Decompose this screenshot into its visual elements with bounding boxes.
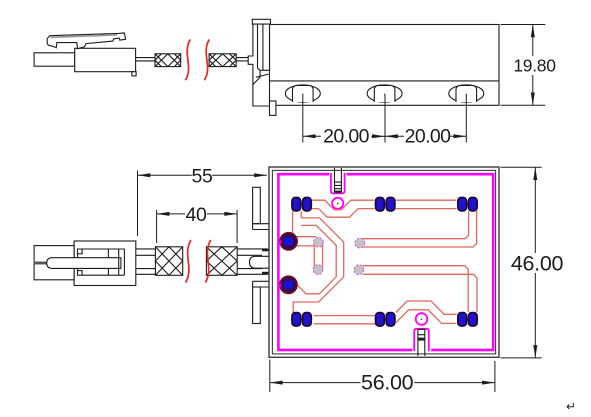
trace: pads A1 to A2 with dip around hole H1 bbox=[311, 200, 375, 217]
dimension 20.00 leader lines bbox=[303, 95, 467, 143]
magenta silkscreen border bbox=[278, 174, 493, 350]
wire W1 side view bbox=[136, 58, 253, 61]
dimension 55 bbox=[138, 166, 267, 237]
dimension 56.00 bbox=[270, 360, 495, 395]
mounting hole H2 (magenta) bbox=[416, 313, 428, 325]
svg-text:55: 55 bbox=[191, 166, 213, 188]
terminal T2 (solder joint) bbox=[278, 276, 297, 293]
PCB mounting bracket upper (plan) bbox=[253, 187, 269, 229]
LED lens L2 side view bbox=[367, 85, 402, 102]
trace: pads A2 to A3 bbox=[396, 200, 457, 208]
PCB outline inner bbox=[272, 170, 495, 354]
via V3 bbox=[355, 238, 365, 248]
LED pad pair B3 bbox=[457, 313, 478, 326]
dimension 20.00 (first) bbox=[303, 126, 385, 148]
terminal T1 (solder joint) bbox=[278, 233, 297, 250]
module housing side view bbox=[270, 25, 500, 106]
mounting hole H1 (magenta) bbox=[332, 198, 343, 209]
wire entry housing at board edge bbox=[250, 249, 277, 275]
wire shield hatch segment 2 (side) bbox=[209, 54, 236, 67]
svg-text:20.00: 20.00 bbox=[405, 126, 452, 148]
LED lens L3 side view bbox=[449, 85, 484, 102]
connector P1 plan view body bbox=[34, 241, 136, 286]
svg-text:20.00: 20.00 bbox=[323, 126, 370, 148]
wire shield hatch segment 1 (plan) bbox=[155, 247, 182, 275]
trace: via V1 to via V2 bbox=[314, 245, 322, 268]
trace: arc band around vias to pads B1 (outer edge) bbox=[293, 218, 344, 313]
svg-text:56.00: 56.00 bbox=[361, 371, 414, 395]
connector P1 latch lever bbox=[47, 33, 125, 49]
svg-text:↵: ↵ bbox=[566, 400, 576, 414]
PCB mounting bracket lower (plan) bbox=[253, 281, 269, 323]
LED pad pair B1 bbox=[291, 313, 312, 326]
trace: pads B2 to pads B3 over hole H2 bbox=[396, 301, 457, 323]
module left mount column (side) bbox=[248, 19, 276, 115]
via V2 bbox=[313, 265, 323, 275]
trace: pads A3 down to via V3 bbox=[363, 211, 477, 247]
wire W1 plan view (upper conductor) bbox=[136, 249, 268, 255]
connector P1 side view body bbox=[34, 48, 136, 76]
via V4 bbox=[354, 265, 364, 275]
connector P1 cavity detail lines bbox=[78, 249, 125, 275]
top notch slot cutout bbox=[329, 168, 346, 196]
LED pad pair A2 bbox=[375, 198, 396, 211]
trace: pad A1 down to terminal T1 bbox=[293, 211, 302, 233]
trace: arc band inner edge to terminal T2 bbox=[297, 225, 336, 293]
dimension 40 bbox=[157, 204, 238, 243]
trace: pads B1 to pads B2 bbox=[314, 316, 376, 324]
LED lens L1 side view bbox=[285, 85, 320, 102]
via V1 bbox=[314, 237, 324, 247]
PCB outline outer bbox=[269, 167, 499, 357]
svg-text:19.80: 19.80 bbox=[513, 56, 556, 76]
LED pad pair A1 bbox=[291, 198, 312, 211]
trace: terminal T1 to via V1 bbox=[295, 237, 316, 246]
dimension 19.80 bbox=[501, 25, 557, 106]
LED pad pair B2 bbox=[375, 313, 396, 326]
LED pad pair A3 bbox=[457, 198, 478, 211]
wire W2 plan view (lower conductor) bbox=[136, 269, 268, 275]
dimension 20.00 (second) bbox=[385, 126, 466, 148]
trace: via V4 to pads B3 bbox=[363, 266, 478, 312]
wire shield hatch segment 2 (plan) bbox=[206, 247, 237, 275]
connector P1 centre tongue bbox=[47, 258, 121, 269]
wire break symbol (red) side view bbox=[185, 40, 209, 81]
svg-text:46.00: 46.00 bbox=[511, 252, 564, 276]
wire break symbol (red) plan view bbox=[186, 240, 211, 283]
wire shield hatch segment 1 (side) bbox=[155, 54, 181, 67]
svg-text:40: 40 bbox=[185, 204, 207, 226]
bottom notch slot cutout bbox=[412, 328, 431, 356]
dimension 46.00 bbox=[501, 167, 564, 358]
